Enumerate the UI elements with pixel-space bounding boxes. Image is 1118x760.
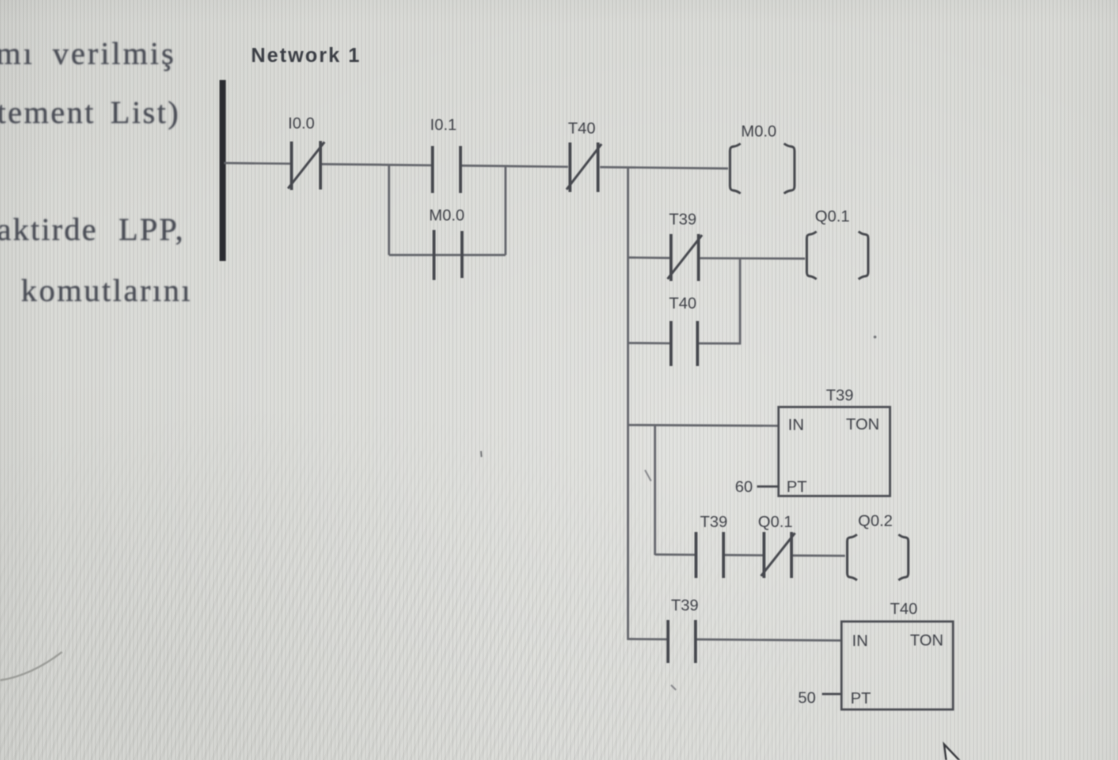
wire rung1 seg3 bbox=[462, 166, 568, 167]
svg-text:T39: T39 bbox=[700, 514, 728, 531]
wire rung5 seg2 bbox=[725, 554, 763, 556]
contact T40 (NO) rung3 bbox=[671, 321, 698, 366]
speck artifact bbox=[480, 451, 483, 457]
svg-text:60: 60 bbox=[735, 479, 753, 496]
svg-text:M0.0: M0.0 bbox=[741, 124, 777, 141]
svg-text:PT: PT bbox=[851, 691, 872, 708]
small tick artifact 1 bbox=[645, 470, 651, 481]
timer box T40 TON bbox=[842, 622, 954, 710]
wire rung5 seg1 bbox=[655, 553, 695, 555]
contact I0.1 (NO) bbox=[433, 146, 461, 193]
wire rung4 to timer T39 bbox=[628, 424, 779, 427]
book text line 1 bbox=[0, 35, 176, 72]
svg-text:T39: T39 bbox=[671, 598, 699, 615]
contact I0.0 (NC) bbox=[288, 141, 325, 190]
svg-text:I0.1: I0.1 bbox=[430, 117, 457, 134]
svg-text:PT: PT bbox=[787, 479, 808, 496]
wire branch up at x505 bbox=[504, 166, 506, 255]
contact Q0.1 (NC) rung5 bbox=[761, 532, 795, 578]
svg-text:Q0.2: Q0.2 bbox=[858, 513, 893, 530]
coil M0.0 bbox=[730, 144, 795, 194]
coil Q0.1 bbox=[807, 232, 868, 280]
wire rung1 seg2 bbox=[322, 164, 431, 165]
wire PT input T39 bbox=[757, 485, 779, 487]
svg-text:IN: IN bbox=[852, 633, 868, 650]
wire branch vertical x740 rung2-rung3 bbox=[739, 258, 741, 344]
svg-text:TON: TON bbox=[846, 417, 879, 434]
svg-text:T40: T40 bbox=[568, 121, 596, 138]
wire branch bottom bbox=[389, 254, 506, 256]
book text line 2 bbox=[0, 94, 180, 131]
dot artifact bbox=[874, 336, 877, 339]
pencil arc artifact bottom-left bbox=[0, 652, 62, 681]
mouse cursor bbox=[944, 744, 960, 760]
timer box T39 TON bbox=[779, 407, 891, 496]
book text line 4 bbox=[21, 272, 192, 309]
svg-text:T40: T40 bbox=[890, 601, 918, 618]
wire rung3 seg1 bbox=[628, 342, 670, 344]
left power rail bbox=[220, 80, 226, 261]
small tick artifact 2 bbox=[671, 685, 676, 690]
svg-text:TON: TON bbox=[910, 633, 943, 650]
contact M0.0 (NO) bbox=[434, 230, 462, 280]
svg-text:Q0.1: Q0.1 bbox=[758, 514, 793, 531]
svg-text:T39: T39 bbox=[826, 388, 854, 405]
svg-text:IN: IN bbox=[788, 417, 804, 434]
wire rung2 seg2 bbox=[700, 257, 805, 260]
wire rung1 seg4 bbox=[600, 167, 728, 168]
wire branch vertical x655 rung4-rung5 bbox=[654, 425, 656, 555]
wire main left vertical bbox=[627, 168, 629, 641]
svg-text:M0.0: M0.0 bbox=[429, 208, 465, 225]
svg-text:Q0.1: Q0.1 bbox=[815, 209, 850, 226]
contact T39 (NO) rung5 bbox=[696, 532, 724, 578]
wire rung5 seg3 bbox=[793, 554, 845, 556]
contact T39 (NO) rung6 bbox=[668, 620, 696, 663]
wire PT input T40 bbox=[822, 693, 842, 695]
wire rung1 seg1 bbox=[224, 162, 290, 165]
contact T39 (NC) rung2 bbox=[668, 234, 703, 281]
network title bbox=[251, 45, 361, 68]
svg-text:I0.0: I0.0 bbox=[288, 116, 315, 133]
wire rung6 seg1 bbox=[628, 638, 667, 640]
wire rung6 seg2 bbox=[697, 639, 842, 640]
svg-text:T39: T39 bbox=[669, 212, 697, 229]
wire rung3 seg2 bbox=[699, 342, 741, 344]
wire rung2 seg1 bbox=[628, 256, 670, 259]
svg-text:T40: T40 bbox=[669, 296, 697, 313]
wire branch down at x389 bbox=[388, 164, 390, 255]
book text line 3 bbox=[0, 211, 185, 248]
coil Q0.2 bbox=[847, 535, 908, 581]
contact T40 (NC) bbox=[567, 143, 602, 193]
svg-text:50: 50 bbox=[798, 690, 816, 707]
